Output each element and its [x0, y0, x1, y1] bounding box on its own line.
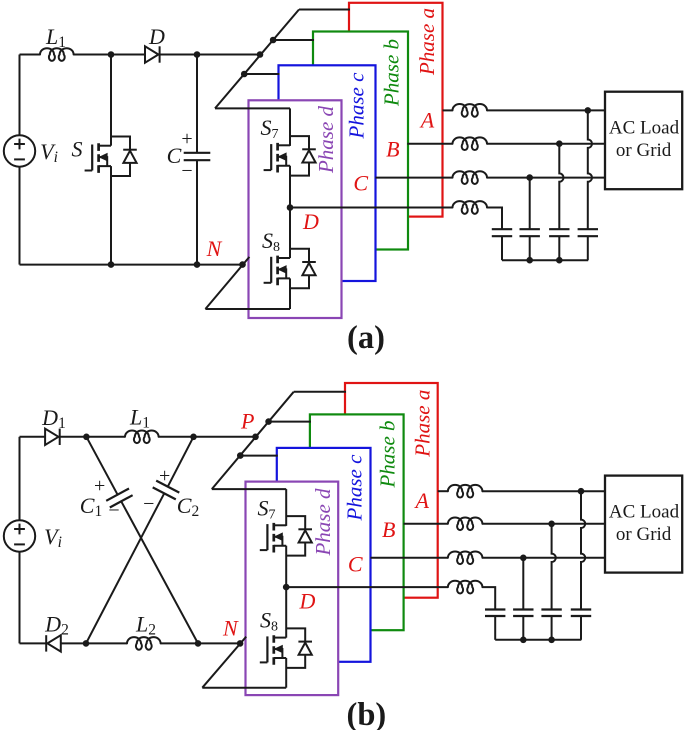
- phase box Phase d (purple) of (b): [246, 482, 339, 695]
- transistor S: [85, 137, 137, 177]
- wire output C left of (b): [371, 557, 448, 559]
- inductor filter B of (b): [448, 517, 482, 530]
- wire bottom fan diagonal: [205, 257, 249, 309]
- svg-text:−: −: [108, 500, 119, 522]
- wire top fan diagonal of (b): [212, 392, 294, 489]
- wire S8 drain: [289, 208, 291, 259]
- node B1 junction: [83, 640, 90, 647]
- wire output C left: [376, 177, 453, 179]
- diode D2: [46, 635, 61, 651]
- wire output D right of (b): [482, 587, 495, 609]
- svg-text:C: C: [348, 552, 363, 577]
- wire bottom rail to D2: [20, 642, 47, 644]
- inductor filter D of (b): [448, 581, 482, 594]
- svg-text:D2: D2: [44, 612, 69, 639]
- wire D1 to node T1: [60, 436, 87, 438]
- inductor filter D: [453, 201, 487, 214]
- svg-text:L2: L2: [135, 612, 156, 639]
- wire S7 drain: [289, 108, 291, 145]
- wire C2 to B1: [86, 493, 164, 643]
- svg-text:Vi: Vi: [40, 139, 58, 166]
- svg-text:(a): (a): [347, 320, 385, 356]
- svg-text:Phase c: Phase c: [345, 72, 369, 140]
- node A filter tap: [585, 107, 592, 114]
- wire C tap to capacitor: [529, 178, 531, 230]
- svg-text:−: −: [181, 160, 192, 182]
- wire output A right: [487, 109, 605, 111]
- transistor S8: [264, 249, 316, 289]
- wire left branch top: [19, 55, 21, 136]
- wire top fan diagonal: [215, 10, 299, 109]
- transistor S7 of (b): [260, 516, 312, 556]
- phase box Phase a (red): [349, 3, 443, 217]
- svg-text:+: +: [181, 128, 192, 150]
- wire output C right: [487, 177, 605, 179]
- wire output B right of (b): [482, 523, 604, 525]
- wire left branch top of (b): [19, 437, 21, 521]
- capacitor filter 4 of (b): [571, 610, 591, 640]
- AC load box: [605, 92, 682, 190]
- wire bottom feed Phase d leg: [205, 308, 290, 310]
- node fan tap c: [241, 71, 248, 78]
- wire B tap to capacitor of (b): [552, 524, 556, 610]
- inductor filter C: [453, 171, 487, 184]
- node capacitor bus junction 2: [556, 257, 563, 264]
- wire S7 drain of (b): [285, 489, 287, 526]
- wire B2 to node N of (b): [198, 642, 240, 644]
- svg-text:P: P: [240, 409, 254, 434]
- svg-text:Phase d: Phase d: [311, 488, 335, 557]
- wire S drain: [110, 55, 112, 146]
- svg-text:D: D: [148, 24, 165, 49]
- wire C tap to capacitor of (b): [522, 558, 524, 610]
- node fan tap c of (b): [237, 452, 244, 459]
- svg-text:(b): (b): [347, 697, 387, 730]
- wire C1 to B2: [121, 501, 198, 643]
- node fan tap b: [270, 37, 277, 44]
- node B2 junction: [195, 640, 202, 647]
- svg-text:−: −: [143, 493, 154, 515]
- wire feed to Phase a: [299, 9, 350, 11]
- svg-text:C1: C1: [80, 493, 102, 520]
- capacitor C1: [106, 489, 132, 508]
- wire D2 to node B1: [60, 642, 86, 644]
- node S source junction: [108, 261, 115, 268]
- inductor L2 of (b): [127, 637, 161, 650]
- svg-text:S: S: [72, 137, 83, 162]
- node T1 junction: [83, 434, 90, 441]
- wire top rail to L1: [20, 54, 41, 56]
- capacitor filter 2: [520, 229, 540, 260]
- svg-text:+: +: [94, 475, 105, 497]
- wire S7 source to node D of (b): [285, 546, 287, 587]
- transistor S8 of (b): [260, 628, 312, 668]
- voltage source Vi: [4, 135, 35, 166]
- node fan tap rail: [257, 51, 264, 58]
- phase box Phase b (green) of (b): [310, 414, 404, 630]
- node T2 junction: [190, 434, 197, 441]
- svg-text:D: D: [299, 589, 316, 614]
- wire left branch bottom of (b): [19, 552, 21, 644]
- svg-text:N: N: [206, 236, 223, 261]
- node P junction: [252, 434, 259, 441]
- capacitor filter 3 of (b): [541, 610, 561, 640]
- svg-text:AC Load: AC Load: [609, 117, 680, 138]
- wire diagonal T2 to C2: [168, 437, 194, 487]
- wire S source: [110, 166, 112, 265]
- wire bottom rail: [20, 264, 243, 266]
- node C filter tap: [526, 174, 533, 181]
- node fan tap b of (b): [265, 418, 272, 425]
- capacitor filter 1 of (b): [485, 610, 505, 640]
- svg-text:Phase a: Phase a: [415, 8, 439, 76]
- node D junction: [287, 204, 294, 211]
- wire capacitor bus of (b): [495, 639, 581, 641]
- node B filter tap: [556, 140, 563, 147]
- wire feed to Phase d leg of (b): [212, 488, 286, 490]
- svg-text:A: A: [419, 108, 435, 133]
- capacitor filter 4: [578, 229, 598, 260]
- voltage source Vi of (b): [4, 520, 35, 551]
- svg-text:D1: D1: [41, 405, 66, 432]
- wire capacitor bus: [502, 259, 588, 261]
- wire A tap to capacitor of (b): [581, 491, 585, 609]
- svg-text:C: C: [353, 171, 368, 196]
- wire output B right: [487, 143, 605, 145]
- svg-text:B: B: [382, 517, 395, 542]
- wire output D right: [487, 208, 502, 230]
- node C bottom junction: [194, 261, 201, 268]
- node C filter tap of (b): [520, 555, 527, 562]
- node capacitor bus junction 1 of (b): [520, 637, 527, 644]
- node capacitor bus junction 2 of (b): [548, 637, 555, 644]
- capacitor filter 3: [549, 229, 569, 260]
- svg-text:C: C: [167, 143, 182, 168]
- wire output C right of (b): [482, 557, 604, 559]
- wire B1 to L2: [86, 642, 127, 644]
- wire L2 to node B2: [161, 642, 199, 644]
- svg-text:Vi: Vi: [44, 524, 62, 551]
- svg-text:AC Load: AC Load: [609, 501, 680, 522]
- phase box Phase a (red) of (b): [345, 383, 438, 598]
- node N junction of (b): [237, 640, 244, 647]
- node N junction: [239, 261, 246, 268]
- wire top rail to D1: [20, 436, 46, 438]
- capacitor filter 1: [492, 229, 512, 260]
- node B filter tap of (b): [548, 521, 555, 528]
- wire S7 source to node D: [289, 166, 291, 208]
- wire left branch bottom: [19, 167, 21, 265]
- diode D1: [45, 429, 60, 445]
- wire diode D to node: [160, 54, 260, 56]
- node L1-S junction: [108, 51, 115, 58]
- phase box Phase d (purple): [249, 100, 342, 318]
- svg-text:Phase d: Phase d: [314, 105, 338, 174]
- wire feed to Phase a of (b): [294, 391, 346, 393]
- phase box Phase c (blue) of (b): [277, 448, 371, 662]
- svg-text:L1: L1: [129, 405, 150, 432]
- inductor filter B: [453, 137, 487, 150]
- inductor L1: [40, 48, 74, 61]
- capacitor filter 2 of (b): [513, 610, 533, 640]
- transistor S7: [264, 136, 316, 176]
- diode D: [145, 46, 160, 62]
- node D junction of (b): [283, 584, 290, 591]
- wire T2 to node P: [194, 436, 256, 438]
- svg-text:Phase c: Phase c: [343, 454, 367, 522]
- wire output A right of (b): [482, 490, 604, 492]
- svg-text:Phase a: Phase a: [411, 390, 435, 458]
- node A filter tap of (b): [578, 488, 585, 495]
- phase box Phase c (blue): [279, 65, 376, 281]
- wire bottom fan diagonal of (b): [202, 637, 246, 688]
- wire A tap to capacitor: [588, 110, 592, 229]
- svg-text:+: +: [159, 465, 170, 487]
- wire output A left of (b): [438, 490, 448, 492]
- svg-text:or Grid: or Grid: [616, 140, 672, 161]
- node capacitor bus junction 1: [526, 257, 533, 264]
- svg-text:D: D: [302, 209, 319, 234]
- svg-text:C2: C2: [177, 493, 199, 520]
- wire bottom feed Phase d leg of (b): [202, 687, 286, 689]
- wire diagonal T1 to C1: [86, 437, 117, 495]
- inductor filter A of (b): [448, 485, 482, 498]
- svg-text:or Grid: or Grid: [616, 524, 672, 545]
- wire feed to Phase b of (b): [269, 421, 311, 423]
- wire output A left: [443, 109, 453, 111]
- svg-text:Phase b: Phase b: [376, 420, 400, 488]
- svg-text:N: N: [222, 616, 239, 641]
- wire C bottom: [196, 160, 198, 264]
- inductor filter A: [453, 104, 487, 117]
- wire output D left: [290, 207, 453, 209]
- svg-text:B: B: [386, 137, 399, 162]
- wire output D left of (b): [286, 586, 448, 588]
- wire S8 drain of (b): [285, 587, 287, 638]
- AC load box of (b): [605, 476, 682, 573]
- wire S8 source of (b): [285, 658, 287, 688]
- wire output B left: [407, 143, 452, 145]
- capacitor C plates: [184, 153, 211, 160]
- wire T1 to L1: [86, 436, 125, 438]
- capacitor C2: [153, 481, 180, 500]
- wire feed to Phase b: [273, 39, 314, 41]
- wire L1 to node T2: [159, 436, 194, 438]
- wire feed to Phase c of (b): [240, 455, 277, 457]
- wire C top: [196, 55, 198, 153]
- svg-text:Phase b: Phase b: [380, 39, 404, 107]
- inductor filter C of (b): [448, 551, 482, 564]
- inductor L1 of (b): [125, 430, 159, 443]
- svg-text:L1: L1: [45, 24, 66, 51]
- wire L1 to diode D: [74, 54, 146, 56]
- phase box Phase b (green): [313, 32, 408, 250]
- wire B tap to capacitor: [559, 144, 563, 230]
- wire S8 source: [289, 278, 291, 309]
- wire feed to Phase d leg: [215, 107, 290, 109]
- node C top junction: [194, 51, 201, 58]
- svg-text:A: A: [413, 488, 429, 513]
- wire output B left of (b): [404, 523, 448, 525]
- wire feed to Phase c: [244, 73, 279, 75]
